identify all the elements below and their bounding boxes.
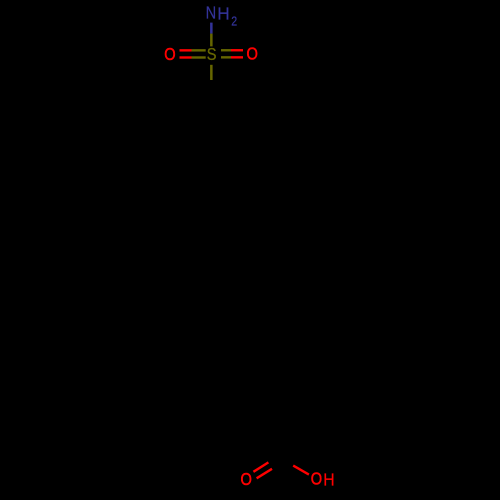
wire C-OH single bond (visible red half): [293, 466, 309, 475]
wire C=O double bond line 2: [257, 469, 272, 479]
svg-text:O: O: [240, 471, 251, 489]
svg-text:O: O: [247, 46, 258, 64]
wire S=O left double bond red halves: [180, 49, 192, 51]
svg-text:S: S: [207, 46, 217, 64]
svg-text:O: O: [164, 46, 175, 64]
svg-text:H: H: [323, 470, 334, 490]
wire N-S bond (blue half): [210, 23, 213, 34]
wire C=O double bond line 1: [253, 462, 268, 471]
wire S=O left double bond olive halves: [192, 49, 206, 51]
svg-text:N: N: [206, 5, 217, 23]
wire N-S bond (sulfur half): [210, 34, 213, 47]
wire S-C bond (visible sulfur half): [210, 65, 213, 80]
svg-text:O: O: [311, 471, 322, 489]
node OH hydroxyl label: [311, 470, 335, 490]
wire S=O right double bond red halves: [231, 49, 243, 51]
wire S=O right double bond olive halves: [221, 49, 231, 51]
svg-text:2: 2: [231, 15, 237, 29]
node NH2 amine label: [206, 4, 238, 29]
svg-text:H: H: [217, 4, 229, 24]
